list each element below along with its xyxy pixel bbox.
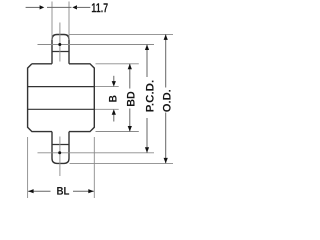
BD dimension line — [129, 64, 131, 132]
bottom tooth outline — [52, 132, 69, 164]
top roller center dot — [58, 43, 61, 46]
11.7 left arrowhead — [40, 5, 45, 9]
svg-text:BL: BL — [56, 186, 69, 198]
B lower shaft — [113, 114, 115, 122]
PCD top arrowhead — [145, 45, 149, 51]
bore line lower — [28, 108, 95, 110]
svg-text:O.D.: O.D. — [161, 89, 173, 112]
OD dimension line — [165, 34, 167, 163]
hub outline — [28, 64, 95, 132]
top tooth root line — [52, 51, 69, 53]
top vertical centerline — [59, 23, 61, 62]
BL right arrowhead — [88, 189, 94, 193]
11.7 extension line right — [68, 2, 70, 41]
bottom tooth root line — [52, 144, 69, 146]
bore line upper — [28, 86, 95, 88]
BL right extension line — [93, 137, 95, 198]
bottom roller center dot — [58, 151, 61, 154]
svg-text:P.C.D.: P.C.D. — [145, 80, 157, 113]
11.7 extension line left — [51, 2, 53, 41]
BL left extension line — [27, 137, 29, 198]
BD bottom arrowhead — [128, 126, 132, 132]
bottom vertical centerline — [59, 137, 61, 177]
top horizontal centerline / PCD extension — [38, 44, 155, 46]
B top extension line — [95, 86, 119, 88]
OD top extension line — [70, 33, 174, 35]
svg-text:11.7: 11.7 — [91, 0, 108, 15]
svg-text:BD: BD — [125, 91, 137, 107]
11.7 dimension middle line — [47, 6, 72, 8]
B bottom extension line — [95, 108, 119, 110]
B upper arrowhead — [112, 81, 116, 87]
OD bottom arrowhead — [164, 158, 168, 164]
B upper shaft — [113, 76, 115, 82]
OD top arrowhead — [164, 34, 168, 40]
svg-text:B: B — [107, 95, 119, 102]
11.7 dimension left shaft — [26, 6, 41, 8]
top tooth outline — [52, 35, 69, 64]
BD top extension line — [96, 63, 139, 65]
OD bottom extension line — [70, 162, 174, 164]
PCD dimension line — [146, 45, 148, 153]
bottom horizontal centerline / PCD extension — [38, 152, 155, 154]
B lower arrowhead — [112, 109, 116, 115]
11.7 right arrowhead — [72, 5, 77, 9]
PCD bottom arrowhead — [145, 147, 149, 153]
BD top arrowhead — [128, 64, 132, 70]
BL left arrowhead — [28, 189, 33, 193]
11.7 dimension right shaft — [77, 6, 91, 8]
BD bottom extension line — [96, 131, 139, 133]
BL dimension line — [28, 190, 94, 192]
